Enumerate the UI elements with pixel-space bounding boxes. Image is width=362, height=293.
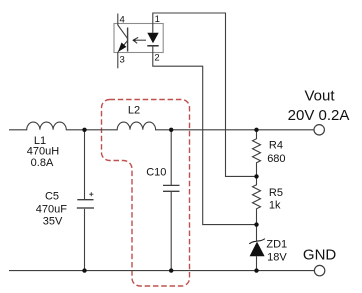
node Vout label	[288, 88, 350, 124]
svg-text:L2: L2	[128, 105, 140, 117]
svg-text:C5: C5	[45, 191, 59, 203]
LED triangle	[147, 33, 158, 44]
terminal GND	[314, 265, 324, 275]
svg-text:R5: R5	[269, 187, 283, 199]
svg-text:GND: GND	[303, 246, 337, 263]
zener diode ZD1 label	[266, 238, 287, 263]
svg-text:1k: 1k	[269, 200, 281, 212]
light coupling arrow	[132, 37, 146, 43]
svg-text:0.8A: 0.8A	[31, 157, 54, 169]
resistor R4	[253, 130, 261, 177]
junction dot R4/R5	[254, 174, 258, 178]
svg-text:20V 0.2A: 20V 0.2A	[288, 107, 350, 124]
svg-text:18V: 18V	[267, 251, 287, 263]
svg-text:1: 1	[155, 14, 160, 25]
wire bottom rail (GND)	[9, 270, 314, 272]
svg-text:4: 4	[120, 15, 125, 26]
wire top rail with L1 and L2 humps	[9, 122, 314, 130]
junction dot ZD1 bottom	[254, 268, 258, 272]
junction dot R5/ZD1	[254, 222, 258, 226]
junction dot C5 top	[82, 128, 86, 132]
svg-text:470uF: 470uF	[36, 203, 67, 215]
inductor L1 label	[27, 135, 59, 169]
wire pin 2 to R5/ZD1 junction	[153, 46, 257, 225]
resistor R5	[253, 176, 261, 224]
svg-text:R4: R4	[269, 140, 283, 152]
terminal Vout	[314, 125, 324, 135]
svg-text:680: 680	[267, 153, 285, 165]
svg-text:C10: C10	[146, 166, 166, 178]
resistor R5 label	[269, 187, 283, 212]
svg-text:2: 2	[154, 53, 159, 64]
phototransistor collector	[118, 25, 128, 39]
capacitor C10	[163, 130, 180, 271]
optocoupler body box	[114, 24, 163, 53]
junction dot R4 top	[254, 128, 258, 132]
resistor R4 label	[267, 140, 285, 166]
optocoupler pin 4 lead	[117, 14, 119, 26]
phototransistor emitter with arrow	[118, 41, 128, 52]
optocoupler pin 3 lead	[117, 52, 119, 69]
capacitor C5 label	[36, 191, 67, 228]
svg-text:Vout: Vout	[304, 88, 335, 105]
filter box (red dashed outline)	[102, 100, 190, 287]
zener diode ZD1	[249, 225, 265, 271]
phototransistor base bar	[127, 28, 129, 52]
svg-text:35V: 35V	[43, 216, 63, 228]
LED cathode bar	[147, 45, 158, 47]
capacitor C5	[77, 130, 94, 271]
junction dot C10 top	[169, 128, 173, 132]
junction dot C10 bottom	[169, 268, 173, 272]
junction dot C5 bottom	[82, 268, 86, 272]
svg-text:470uH: 470uH	[27, 145, 59, 157]
svg-text:3: 3	[120, 54, 125, 65]
wire pin 1 to R4/R5 junction	[153, 13, 257, 176]
svg-text:ZD1: ZD1	[266, 238, 287, 250]
